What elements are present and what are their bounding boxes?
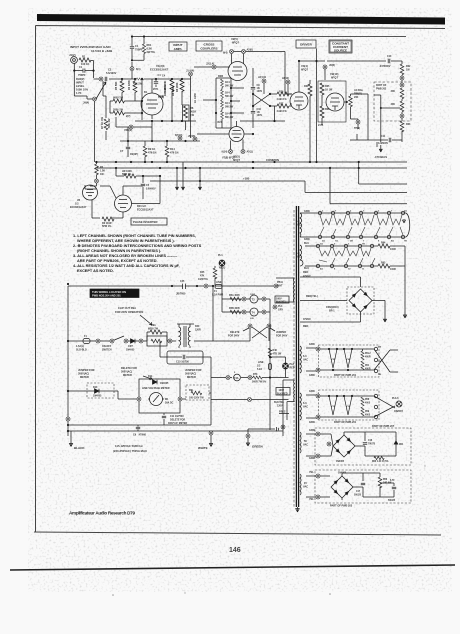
svg-text:FOR 240V: FOR 240V [276,335,288,338]
svg-text:GREEN: GREEN [252,445,263,449]
svg-text:RED: RED [303,271,308,274]
svg-text:4005: 4005 [365,402,371,405]
svg-text:LINE VOLTAGE METER: LINE VOLTAGE METER [142,387,170,390]
svg-text:R1: R1 [82,55,86,59]
svg-text:6(TA0): 6(TA0) [175,134,182,137]
svg-text:INPUT: INPUT [76,81,84,85]
svg-text:20K: 20K [391,103,396,106]
svg-text:1- LEFT CHANNEL SHOWN (RIGHT C: 1- LEFT CHANNEL SHOWN (RIGHT CHANNEL TUB… [73,234,196,238]
svg-text:115-125VAC 50/60 Hz: 115-125VAC 50/60 Hz [115,444,143,448]
svg-text:GRY: GRY [278,309,283,312]
svg-text:7A: 7A [335,240,338,243]
svg-text:J2(1,4): J2(1,4) [206,63,214,66]
svg-text:6R05 7W: 6R05 7W [148,328,159,331]
svg-text:R5A 4005: R5A 4005 [229,294,240,297]
svg-text:R9 1K: R9 1K [148,147,155,151]
svg-text:VAC: VAC [303,406,308,409]
svg-text:T4A: T4A [234,377,239,380]
svg-text:2- ⊕ DENOTES P.W.BOARD INTERCO: 2- ⊕ DENOTES P.W.BOARD INTERCONNECTIONS … [73,244,202,248]
svg-text:RED: RED [303,325,308,328]
svg-text:THIS WIRING LOCATED ON: THIS WIRING LOCATED ON [92,290,126,294]
svg-text:(220-250VAC) 750VA MAX: (220-250VAC) 750VA MAX [113,449,147,453]
svg-text:5W 2W: 5W 2W [225,95,234,98]
svg-text:ECC83/12AX7: ECC83/12AX7 [137,209,154,212]
svg-text:R61: R61 [147,43,152,47]
svg-text:4- ALL RESISTORS 1/2 WATT AND: 4- ALL RESISTORS 1/2 WATT AND ALL CAPACI… [73,264,180,268]
svg-text:9(14): 9(14) [222,151,228,154]
svg-text:R63: R63 [406,123,411,126]
svg-text:WHITE: WHITE [198,446,208,450]
svg-text:GRN: GRN [309,429,315,432]
svg-text:5PW 1%: 5PW 1% [122,173,132,176]
svg-text:100V: 100V [257,114,263,117]
svg-text:R56: R56 [383,479,388,481]
svg-text:GRN: GRN [309,421,315,424]
svg-text:4TB 1W: 4TB 1W [273,353,283,356]
svg-text:3A: 3A [320,243,323,246]
svg-text:120R: 120R [195,329,201,332]
svg-text:C2: C2 [108,68,112,72]
svg-text:C16: C16 [368,440,373,442]
svg-text:2(7): 2(7) [126,115,130,118]
svg-text:400R: 400R [365,356,371,359]
svg-text:47VAC: 47VAC [303,275,311,278]
svg-text:300V'AC' METER: 300V'AC' METER [168,422,187,425]
svg-text:3- ALL AREAS NOT ENCLOSED BY B: 3- ALL AREAS NOT ENCLOSED BY BROKEN LINE… [73,254,178,258]
svg-text:R5L2: R5L2 [365,353,371,355]
svg-text:9(4): 9(4) [223,52,228,55]
svg-text:C11: C11 [381,135,386,138]
svg-text:GRN: GRN [309,343,315,346]
svg-text:PART OF PWB 201: PART OF PWB 201 [334,374,357,377]
svg-text:700/75: 700/75 [368,444,376,446]
svg-text:Amplificateur Audio Research D: Amplificateur Audio Research D79 [69,511,135,516]
svg-text:R73: R73 [253,373,258,376]
svg-text:R9L: R9L [189,389,194,392]
svg-text:RH1(2): RH1(2) [76,77,84,81]
svg-text:R2B: R2B [218,75,223,78]
svg-text:R8 100K: R8 100K [176,82,179,92]
svg-text:SLO-BLO: SLO-BLO [76,349,87,352]
svg-text:7B: 7B [362,244,365,246]
svg-text:J2(12): J2(12) [282,77,289,80]
svg-text:BLACK: BLACK [74,446,85,450]
svg-text:ECC83/12AX7: ECC83/12AX7 [150,67,169,71]
svg-text:R14: R14 [170,147,175,151]
svg-text:NE2J: NE2J [219,267,226,270]
svg-text:56K 1W: 56K 1W [107,118,111,128]
svg-text:D11: D11 [148,375,153,378]
svg-text:C17: C17 [356,491,361,493]
svg-text:PART OF PWB 201: PART OF PWB 201 [334,421,357,424]
svg-text:R5B 4005: R5B 4005 [229,307,240,310]
svg-text:BLU: BLU [304,242,309,245]
svg-text:J1 9(4): J1 9(4) [186,70,194,73]
svg-text:5PW 1%: 5PW 1% [102,225,112,228]
svg-text:ZD1: ZD1 [399,444,404,446]
svg-text:6FQ7: 6FQ7 [301,68,308,72]
svg-text:AMPL: AMPL [174,47,183,51]
svg-text:400R: 400R [365,368,371,371]
svg-text:1/2W 5%: 1/2W 5% [198,278,209,281]
svg-text:5.6/400V: 5.6/400V [146,188,156,191]
svg-text:R7 1K 1W: R7 1K 1W [100,116,104,129]
svg-text:R36: R36 [325,108,330,111]
svg-text:1N4005: 1N4005 [160,382,169,385]
svg-text:SWITCH: SWITCH [102,349,112,352]
svg-text:1K 1W: 1K 1W [325,89,333,92]
svg-text:R5 56K: R5 56K [115,81,118,90]
svg-text:LINE: LINE [216,281,222,284]
svg-text:C45: C45 [180,280,185,283]
svg-text:100V: 100V [257,90,263,93]
svg-text:2071: 2071 [153,88,159,91]
svg-text:7A: 7A [378,360,381,363]
svg-text:4.994 1%: 4.994 1% [277,98,288,101]
svg-text:1N4005: 1N4005 [126,349,135,352]
svg-text:500/25: 500/25 [388,500,396,502]
svg-text:V7(8) 6FQ7: V7(8) 6FQ7 [222,157,236,160]
svg-text:C1: C1 [135,44,139,48]
svg-text:ON/OFF: ON/OFF [394,410,404,413]
svg-text:1N4005: 1N4005 [336,460,345,463]
svg-text:CLIP OUT R9A: CLIP OUT R9A [118,306,136,310]
svg-text:(RIGHT CHANNEL SHOWN IN PARENT: (RIGHT CHANNEL SHOWN IN PARENTHESIS ). [77,249,161,253]
svg-text:2171: 2171 [318,124,324,127]
svg-text:47VAC: 47VAC [303,318,311,321]
svg-text:500/25: 500/25 [354,495,362,497]
svg-text:PWB 202: PWB 202 [376,88,387,91]
svg-text:750PF: 750PF [78,73,86,77]
svg-text:5W 2W: 5W 2W [225,116,234,119]
svg-text:4.994 1%: 4.994 1% [277,110,288,113]
svg-text:20K: 20K [391,90,396,93]
svg-text:R64: R64 [381,242,386,245]
svg-text:4005: 4005 [365,414,371,417]
svg-text:500R 7W 5%: 500R 7W 5% [252,381,267,384]
svg-text:COUPLERS: COUPLERS [200,47,217,51]
svg-text:A1 1/2W: A1 1/2W [194,93,197,103]
svg-text:20K: 20K [354,96,359,99]
svg-text:JB/7600: JB/7600 [176,293,186,296]
svg-text:4A: 4A [320,268,323,271]
svg-text:R8 100K: R8 100K [172,86,175,96]
svg-text:100R: 100R [390,268,396,271]
svg-text:GRN: GRN [309,457,315,460]
svg-text:TP(9): TP(9) [354,127,360,130]
svg-text:BR-1: BR-1 [329,310,335,313]
svg-text:A2(6): A2(6) [247,49,253,52]
svg-text:GRN: GRN [304,238,310,241]
svg-text:YEL: YEL [309,471,314,474]
svg-text:6.2K: 6.2K [147,47,153,51]
svg-text:6FQ7: 6FQ7 [331,76,338,80]
svg-text:LEVEL: LEVEL [76,84,85,88]
svg-text:5W 2W: 5W 2W [225,85,234,88]
svg-text:FOR 240V: FOR 240V [228,335,240,338]
svg-text:2A: 2A [322,240,325,243]
svg-text:9000 1W: 9000 1W [113,97,124,100]
svg-text:R2 220K: R2 220K [128,80,131,90]
svg-text:VAC: VAC [296,224,301,227]
svg-text:6FQ7: 6FQ7 [232,41,239,45]
svg-text:39A DC: 39A DC [165,402,174,405]
svg-text:C7: C7 [120,149,124,153]
svg-text:2W 5%: 2W 5% [147,50,156,54]
svg-text:PRI 2: PRI 2 [279,410,286,414]
svg-text:VAC: VAC [296,256,301,259]
svg-text:476 1N: 476 1N [148,151,156,155]
svg-text:PL3-6: PL3-6 [392,397,399,400]
svg-text:PL1: PL1 [218,254,223,257]
svg-text:ARE PART OF PWB206, EXCEPT AS: ARE PART OF PWB206, EXCEPT AS NOTED. [77,259,158,263]
svg-text:301K: 301K [190,110,196,114]
svg-text:5W 2W: 5W 2W [225,106,234,109]
svg-text:100-120V 7W: 100-120V 7W [189,397,204,400]
svg-text:1N4005: 1N4005 [93,395,102,398]
svg-text:C15 10/750: C15 10/750 [176,361,190,364]
svg-text:R23: R23 [218,121,223,124]
svg-text:R65: R65 [381,262,386,265]
svg-text:146: 146 [229,547,241,554]
svg-text:PART OF PWB 203: PART OF PWB 203 [330,505,353,508]
svg-text:476 1N: 476 1N [170,151,178,155]
svg-text:PHASE INVERTER: PHASE INVERTER [133,220,158,224]
svg-text:3.3/600V: 3.3/600V [378,142,388,145]
svg-text:8A: 8A [391,240,394,243]
svg-text:A5(1): A5(1) [247,151,253,154]
svg-text:.047/600V: .047/600V [379,65,391,68]
svg-text:5.6/100V: 5.6/100V [106,71,117,75]
svg-text:R51: R51 [365,365,370,367]
svg-text:1N(4P): 1N(4P) [130,153,138,156]
svg-text:-470 BIAS: -470 BIAS [374,155,387,159]
svg-text:PART OF PWB 207: PART OF PWB 207 [372,425,395,428]
svg-text:2B: 2B [350,241,353,243]
svg-text:PWB NOS.204 AND 201: PWB NOS.204 AND 201 [92,294,121,298]
svg-text:GRN: GRN [309,390,315,393]
svg-text:GRN: GRN [309,374,315,377]
svg-text:METER: METER [80,376,89,379]
svg-text:FOR 240V OPERATION: FOR 240V OPERATION [115,310,143,314]
svg-text:WHERE DIFFERENT, ARE SHOWN IN: WHERE DIFFERENT, ARE SHOWN IN PARENTHESI… [77,239,175,243]
svg-text:10.5/16 B +6dB: 10.5/16 B +6dB [91,49,113,53]
svg-text:7B: 7B [378,374,381,376]
svg-text:J9(4): J9(4) [83,101,89,105]
svg-text:750PF: 750PF [135,48,143,52]
svg-text:ECC83/12AX7: ECC83/12AX7 [70,206,87,209]
svg-text:R58: R58 [365,399,370,401]
svg-text:J6(8): J6(8) [329,64,335,67]
svg-text:VAC: VAC [303,359,308,362]
svg-text:1.7K: 1.7K [76,91,82,95]
svg-text:SOURCE: SOURCE [334,49,347,53]
svg-text:BLU: BLU [304,267,309,270]
svg-text:100K 10%: 100K 10% [76,88,89,92]
svg-text:2A: 2A [404,210,407,213]
svg-text:R31: R31 [304,85,309,88]
svg-text:R4B 100K: R4B 100K [164,85,167,96]
svg-text:BLK/RED: BLK/RED [277,392,288,395]
svg-text:100 1K: 100 1K [81,62,89,66]
svg-text:C10: C10 [387,55,392,58]
svg-text:.47/600: .47/600 [138,434,147,437]
svg-text:2006 1W: 2006 1W [113,109,124,112]
svg-text:METER: METER [187,376,196,379]
svg-text:J5(16): J5(16) [188,135,195,138]
svg-text:7B: 7B [404,241,407,243]
svg-text:1097: 1097 [250,294,256,296]
svg-text:6(1): 6(1) [136,68,141,71]
svg-text:6.7F: 6.7F [390,480,395,482]
svg-text:RED(YEL): RED(YEL) [306,295,318,298]
svg-text:VAC: VAC [303,486,308,489]
svg-text:METER: METER [123,374,132,377]
svg-text:J2(1)11: J2(1)11 [258,76,267,79]
svg-text:5.2A: 5.2A [257,368,262,371]
svg-text:GRN: GRN [304,210,310,213]
svg-text:120V: 120V [277,405,283,408]
svg-text:R59: R59 [365,411,370,413]
svg-text:+180: +180 [243,177,250,181]
svg-text:YEL: YEL [309,498,314,501]
svg-text:COMMON: COMMON [266,158,279,162]
svg-text:VAC: VAC [303,444,308,447]
svg-text:D10: D10 [93,386,98,389]
svg-text:EXCEPT AS NOTED.: EXCEPT AS NOTED. [77,269,114,273]
svg-text:WHT: WHT [277,285,283,288]
svg-text:DRIVER: DRIVER [300,43,312,47]
svg-text:100R: 100R [390,248,396,251]
svg-text:R60 1.24 10 5%: R60 1.24 10 5% [372,460,388,463]
